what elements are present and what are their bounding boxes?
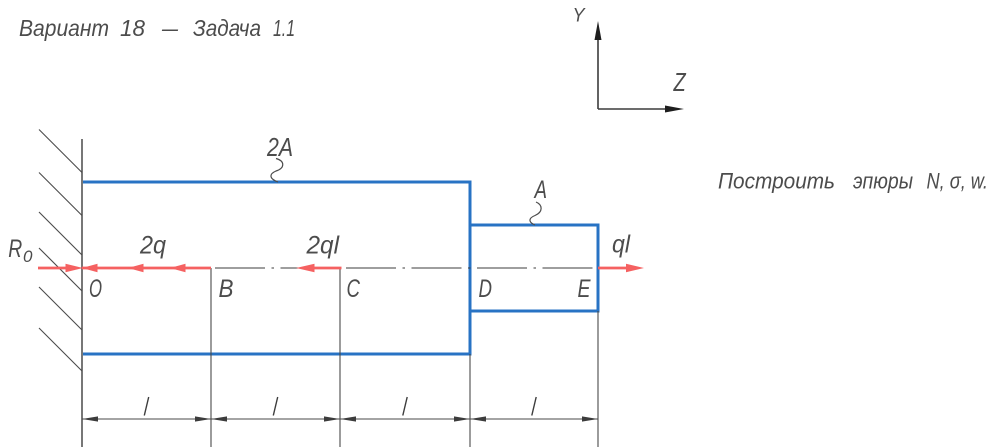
leader squiggle for A [530, 202, 541, 225]
label R0 [8, 235, 33, 266]
dimension line B-C [211, 416, 340, 421]
svg-text:R: R [8, 235, 22, 263]
wall line [81, 139, 83, 447]
svg-text:Z: Z [673, 67, 687, 97]
svg-text:Y: Y [573, 6, 586, 27]
svg-text:A: A [533, 176, 547, 204]
svg-text:2ql: 2ql [306, 232, 341, 260]
Y axis [595, 21, 602, 109]
distributed load arrowhead 3 [170, 264, 186, 272]
task text Построить эпюры N,sigma,w. [718, 169, 988, 194]
distributed load 2q line [82, 267, 211, 270]
dimension line D-E [470, 416, 598, 421]
svg-text:2q: 2q [139, 232, 166, 260]
extension line at C [339, 268, 341, 447]
dimension label l (D-E) [532, 397, 536, 416]
svg-text:C: C [347, 275, 361, 303]
svg-text:Задача: Задача [193, 15, 261, 41]
svg-text:E: E [578, 275, 591, 303]
distributed load arrowhead 1 [82, 264, 98, 272]
leader squiggle for 2A [271, 159, 283, 183]
extension line at D [469, 354, 471, 447]
force 2ql arrow [296, 264, 342, 272]
dimension label l (C-D) [403, 397, 407, 416]
svg-text:D: D [479, 275, 493, 303]
extension line at B [210, 268, 212, 447]
title Вариант 18 - Задача 1.1 [19, 15, 295, 41]
dimension label l (O-B) [144, 397, 148, 416]
svg-text:Построить: Построить [718, 169, 835, 194]
svg-text:N, σ, w.: N, σ, w. [927, 169, 989, 194]
bar section 2A outline [83, 182, 470, 354]
wall hatching [39, 130, 82, 372]
svg-text:эпюры: эпюры [853, 169, 913, 194]
extension line at E [597, 311, 599, 447]
svg-text:Вариант: Вариант [19, 15, 109, 41]
dimension line O-B [82, 416, 211, 421]
svg-text:ql: ql [612, 231, 631, 259]
svg-text:1.1: 1.1 [273, 15, 295, 41]
Z axis [598, 106, 684, 113]
svg-text:0: 0 [23, 247, 33, 266]
svg-text:O: O [89, 275, 102, 303]
svg-text:2A: 2A [266, 132, 293, 162]
dimension label l (B-C) [273, 397, 277, 416]
svg-text:18: 18 [120, 15, 145, 41]
svg-text:–: – [161, 15, 179, 41]
distributed load arrowhead 2 [128, 264, 144, 272]
centerline (bar axis, dash-dot) [215, 267, 598, 269]
svg-text:B: B [219, 275, 234, 303]
reaction force R0 arrow [38, 264, 83, 272]
bar section A outline [470, 225, 598, 311]
force ql arrow [598, 264, 644, 272]
dimension line C-D [340, 416, 470, 421]
